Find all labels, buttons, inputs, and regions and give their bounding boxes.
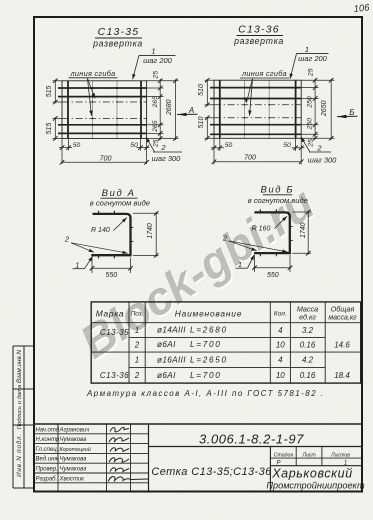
svg-text:4.2: 4.2 xyxy=(302,356,314,365)
svg-text:18.4: 18.4 xyxy=(334,371,350,380)
svg-text:L=2680: L=2680 xyxy=(190,326,228,335)
svg-text:1: 1 xyxy=(135,326,139,335)
svg-text:50: 50 xyxy=(225,142,233,149)
svg-text:Вид А: Вид А xyxy=(102,188,136,199)
svg-text:1740: 1740 xyxy=(147,223,154,239)
svg-text:ø16АIII: ø16АIII xyxy=(157,355,186,364)
svg-text:50: 50 xyxy=(130,142,138,149)
svg-text:Вид Б: Вид Б xyxy=(260,184,294,195)
svg-text:масса,кг: масса,кг xyxy=(328,315,357,322)
svg-text:С13-36: С13-36 xyxy=(100,371,129,380)
svg-text:4: 4 xyxy=(278,356,283,365)
svg-text:линия сгиба: линия сгиба xyxy=(70,69,116,78)
svg-text:шаг 200: шаг 200 xyxy=(298,54,328,63)
svg-text:линия сгиба: линия сгиба xyxy=(241,69,287,78)
svg-text:510: 510 xyxy=(198,84,205,96)
svg-text:700: 700 xyxy=(244,153,256,162)
svg-text:в согнутом виде: в согнутом виде xyxy=(248,196,308,205)
svg-text:2: 2 xyxy=(64,235,70,244)
svg-text:1: 1 xyxy=(135,356,139,365)
svg-text:2650: 2650 xyxy=(321,100,328,117)
svg-text:1: 1 xyxy=(305,45,309,54)
svg-text:2680: 2680 xyxy=(166,99,173,116)
svg-text:ø6АI: ø6АI xyxy=(157,371,176,380)
svg-text:Лист: Лист xyxy=(301,453,316,459)
svg-text:шаг 300: шаг 300 xyxy=(308,155,338,164)
svg-text:25: 25 xyxy=(307,68,314,77)
svg-text:Сетка С13-35;С13-36: Сетка С13-35;С13-36 xyxy=(151,466,272,478)
svg-text:3.2: 3.2 xyxy=(302,326,314,335)
svg-text:С13-35: С13-35 xyxy=(98,26,140,38)
svg-text:Наименование: Наименование xyxy=(175,309,242,319)
svg-text:700: 700 xyxy=(100,154,112,163)
svg-text:развертка: развертка xyxy=(233,36,284,46)
svg-text:Чумакова: Чумакова xyxy=(60,467,88,473)
svg-text:2: 2 xyxy=(160,143,166,152)
svg-text:510: 510 xyxy=(198,117,205,129)
svg-text:4: 4 xyxy=(278,326,283,335)
svg-text:14.6: 14.6 xyxy=(334,341,350,350)
svg-text:Вед.инж.: Вед.инж. xyxy=(36,457,61,463)
svg-text:Кол.: Кол. xyxy=(274,311,287,318)
svg-text:ø6АI: ø6АI xyxy=(157,340,176,349)
svg-text:106: 106 xyxy=(353,2,371,15)
svg-text:ед.кг: ед.кг xyxy=(299,313,316,322)
svg-text:265: 265 xyxy=(152,96,159,109)
svg-text:1: 1 xyxy=(238,260,242,269)
svg-text:3.006.1-8.2-1-97: 3.006.1-8.2-1-97 xyxy=(199,432,304,447)
svg-text:Хвостик: Хвостик xyxy=(59,476,86,482)
svg-text:0.16: 0.16 xyxy=(300,371,316,380)
svg-text:R 160: R 160 xyxy=(252,225,271,232)
svg-text:Агранович: Агранович xyxy=(59,427,90,433)
svg-text:Марка: Марка xyxy=(96,309,125,319)
svg-text:С13-35: С13-35 xyxy=(100,328,129,337)
svg-text:Чумакова: Чумакова xyxy=(60,437,88,443)
svg-text:Гл.спец.: Гл.спец. xyxy=(36,447,59,453)
svg-text:Коротецкий: Коротецкий xyxy=(60,446,91,453)
svg-text:L=700: L=700 xyxy=(190,371,222,380)
svg-text:550: 550 xyxy=(105,272,117,279)
svg-text:Подпись и дата: Подпись и дата xyxy=(17,384,23,429)
svg-text:Взам.инв.N: Взам.инв.N xyxy=(16,349,23,383)
svg-text:ø14АIII: ø14АIII xyxy=(157,326,186,335)
svg-text:1740: 1740 xyxy=(300,223,307,239)
svg-text:250: 250 xyxy=(307,118,314,131)
svg-text:50: 50 xyxy=(283,142,291,149)
svg-text:1: 1 xyxy=(151,47,155,56)
svg-text:С13-36: С13-36 xyxy=(238,24,280,36)
svg-text:2: 2 xyxy=(134,371,140,380)
svg-text:10: 10 xyxy=(276,371,285,380)
svg-text:Б: Б xyxy=(349,108,354,117)
svg-text:10: 10 xyxy=(276,341,285,350)
svg-text:А: А xyxy=(188,106,194,115)
svg-text:шаг 200: шаг 200 xyxy=(143,56,173,65)
svg-text:515: 515 xyxy=(46,85,53,97)
svg-text:2: 2 xyxy=(222,233,228,242)
svg-text:Нач.отд.: Нач.отд. xyxy=(36,427,61,433)
svg-text:Н.контр.: Н.контр. xyxy=(36,437,61,443)
svg-text:515: 515 xyxy=(46,123,53,135)
svg-text:L=2650: L=2650 xyxy=(190,355,228,364)
svg-text:шаг 300: шаг 300 xyxy=(152,154,182,163)
svg-text:265: 265 xyxy=(152,120,159,133)
svg-text:развертка: развертка xyxy=(92,39,143,49)
svg-text:Чумакова: Чумакова xyxy=(60,457,88,463)
svg-text:25: 25 xyxy=(153,139,160,148)
svg-text:Листов: Листов xyxy=(330,453,350,459)
svg-text:550: 550 xyxy=(267,272,279,279)
svg-text:Промстройниипроект: Промстройниипроект xyxy=(266,481,365,491)
svg-text:Харьковский: Харьковский xyxy=(271,466,353,480)
svg-text:25: 25 xyxy=(307,139,314,148)
svg-text:Поз.: Поз. xyxy=(131,311,143,318)
svg-text:R 140: R 140 xyxy=(91,227,110,234)
svg-text:2: 2 xyxy=(134,341,140,350)
svg-text:25: 25 xyxy=(153,71,160,80)
svg-text:Инв.N подл.: Инв.N подл. xyxy=(15,433,23,477)
svg-text:Арматура классов А-I, А-III по: Арматура классов А-I, А-III по ГОСТ 5781… xyxy=(86,389,324,398)
svg-text:0.16: 0.16 xyxy=(300,341,316,350)
svg-text:2: 2 xyxy=(316,143,322,152)
svg-text:Провер.: Провер. xyxy=(36,467,58,473)
svg-text:1: 1 xyxy=(75,261,79,270)
svg-text:L=700: L=700 xyxy=(190,340,222,349)
svg-text:Стадия: Стадия xyxy=(274,453,294,459)
svg-text:Разраб.: Разраб. xyxy=(36,476,58,482)
svg-text:Общая: Общая xyxy=(331,305,355,314)
svg-text:в согнутом виде: в согнутом виде xyxy=(90,199,150,208)
svg-text:250: 250 xyxy=(307,96,314,109)
svg-text:50: 50 xyxy=(73,142,81,149)
